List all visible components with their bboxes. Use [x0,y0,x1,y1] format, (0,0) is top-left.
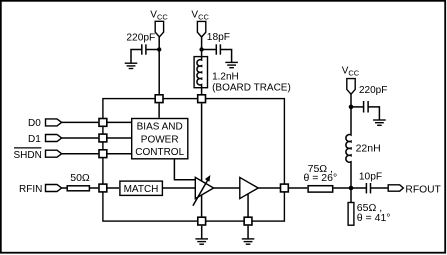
wire D0 [62,121,99,123]
wire amp1 bottom to pin H [201,195,203,217]
ground G5 [242,239,255,244]
pin H [198,217,206,225]
wire L2 to output node [350,162,352,188]
transmission line TL1 75ohm [303,163,337,192]
amplifier stage 1 (variable gain) [193,175,214,206]
wire VCC1 down to pin [158,36,160,94]
bias and power control block [132,119,188,159]
capacitor C1 220pF [126,32,155,54]
power VCC tag 1 [150,10,168,37]
svg-text:D0: D0 [28,118,41,129]
capacitor C2 18pF [207,32,230,55]
svg-text:10pF: 10pF [359,171,382,182]
resistor R1 50ohm [67,172,90,191]
power VCC tag 3 [342,65,360,94]
inductor L1 1.2nH board trace [194,56,291,94]
power VCC tag 2 [191,10,209,38]
junction node VCC1 [157,47,161,51]
junction node output [349,186,354,191]
stub TL2 65ohm [348,188,390,225]
svg-text:BIAS AND: BIAS AND [137,121,183,132]
wire VCC2 down to L1 [201,37,203,56]
inductor L2 22nH [346,135,381,163]
wire pin I to ground [247,226,249,239]
svg-text:50Ω: 50Ω [70,172,90,184]
svg-text:RFOUT: RFOUT [405,184,441,195]
ground G1 [125,63,138,68]
junction node VCC2 [199,47,203,51]
wire dot to C1 [146,49,159,51]
pin I [244,217,252,225]
svg-text:RFIN: RFIN [19,184,42,195]
svg-text:D1: D1 [28,134,41,145]
wire dot to C2 [202,49,217,51]
junction node VCC3 [349,105,354,110]
match network block [120,181,162,195]
svg-text:18pF: 18pF [207,32,230,43]
wire C3 to ground [368,107,379,120]
IC block outline [103,99,285,222]
svg-text:SHDN: SHDN [13,150,41,161]
svg-text:POWER: POWER [141,134,179,145]
pin B [198,95,206,103]
wire C1 to ground [131,50,142,64]
pin E [99,150,107,158]
pin C [99,119,107,127]
wire pin E to bias box [107,153,131,155]
wire VCC3 down to L2 [350,94,352,134]
wire amp2 bottom to pin I [247,194,249,217]
pin G [281,184,289,192]
wire pin H to ground [201,226,203,239]
svg-text:1.2nH: 1.2nH [212,71,239,82]
capacitor C3 220pF [359,85,387,113]
wire SHDN [62,153,99,155]
input D0 [28,118,62,129]
svg-text:220pF: 220pF [359,85,387,96]
wire pin D to bias box [107,137,131,139]
amplifier stage 2 [240,177,258,198]
wire pin A to bias box [158,103,160,118]
wire dot to C3 [351,106,364,108]
svg-text:(BOARD TRACE): (BOARD TRACE) [212,82,291,93]
ground G4 [195,239,208,244]
wire match to amp1 [163,187,195,189]
input SHDN (active low) [13,148,61,161]
svg-text:CONTROL: CONTROL [135,147,184,158]
wire pin F to match [108,187,120,189]
svg-text:220pF: 220pF [126,32,155,43]
svg-text:22nH: 22nH [356,142,381,154]
wire amp1 to amp2 [214,187,240,189]
wire C2 to ground [220,50,231,63]
wire TL1 to output node [334,187,367,189]
wire C4 to RFOUT [371,187,388,189]
svg-text:θ = 26°: θ = 26° [303,172,337,184]
pin F [99,184,107,192]
ground G3 [373,120,386,125]
pin A [155,95,163,103]
wire pin C to bias box [107,121,131,123]
wire amp2 to pin G [258,187,280,189]
capacitor C4 10pF [359,171,382,193]
pin D [99,134,107,142]
wire bias out to amp1 [174,160,195,180]
svg-text:MATCH: MATCH [124,184,159,195]
wire R1 to pin F [89,187,98,189]
ground G2 [225,62,238,67]
wire RFIN to R1 [62,187,68,189]
wire supply to amp1 top [201,103,203,181]
input RFIN [19,184,62,195]
output RFOUT [388,184,441,195]
wire pin G to TL1 [289,187,308,189]
wire D1 [62,137,99,139]
svg-text:θ = 41°: θ = 41° [357,212,391,224]
input D1 [28,134,62,145]
